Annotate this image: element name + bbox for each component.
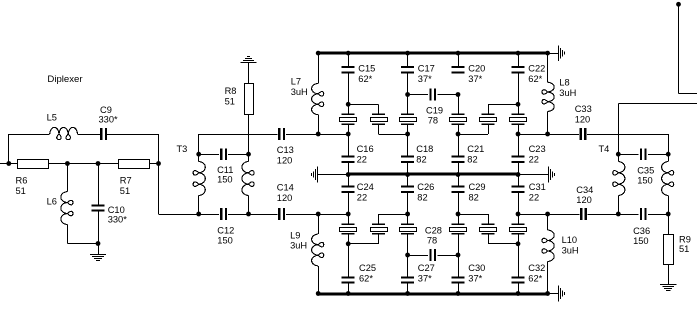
svg-text:C13: C13 — [277, 145, 294, 155]
wire middle bus right stub — [518, 174, 549, 176]
crystal Y12 — [510, 214, 527, 244]
capacitor C11 plates — [217, 148, 233, 185]
svg-text:C23: C23 — [529, 144, 546, 154]
svg-text:51: 51 — [679, 244, 689, 254]
node column4 / bottom row — [516, 212, 521, 217]
svg-text:37*: 37* — [418, 74, 432, 84]
capacitor C26 82 — [401, 175, 434, 215]
node bottom bus / L9 — [316, 291, 321, 296]
svg-text:R6: R6 — [16, 176, 28, 186]
svg-text:C25: C25 — [359, 263, 376, 273]
svg-text:C11: C11 — [217, 165, 233, 175]
svg-text:330*: 330* — [99, 115, 119, 125]
capacitor C25 62* — [342, 263, 376, 294]
wire jog Y7-Y8 bottom — [348, 243, 378, 245]
svg-text:150: 150 — [637, 175, 653, 185]
inductor L7 3uH — [291, 53, 324, 134]
winding T3 right — [242, 154, 254, 214]
title text "Diplexer" — [47, 74, 83, 85]
wire C9 to right bend — [107, 134, 159, 136]
node crystal Y7 bottom — [346, 241, 351, 246]
wire C14 to L9 node — [286, 214, 318, 216]
svg-text:L7: L7 — [291, 77, 301, 87]
svg-text:82: 82 — [417, 192, 427, 202]
crystal Y3 — [400, 95, 417, 135]
node C28 right — [456, 253, 461, 258]
node C28 left — [405, 253, 410, 258]
wire L5 to C9 — [78, 134, 101, 136]
capacitor C18 82 — [401, 134, 433, 175]
ground right of bottom bus — [559, 286, 565, 302]
top bus — [318, 52, 547, 55]
wire column4 to L10 node (bottom row) — [518, 214, 548, 216]
svg-text:R8: R8 — [225, 86, 237, 96]
node T3 left bottom — [196, 212, 201, 217]
resistor R7 51 — [119, 160, 150, 197]
svg-text:62*: 62* — [358, 74, 372, 84]
svg-text:82: 82 — [416, 155, 426, 165]
node T3 left top — [196, 152, 201, 157]
ground left of middle bus — [312, 167, 318, 183]
inductor L10 3uH — [542, 214, 579, 294]
inductor L8 3uH — [542, 53, 576, 134]
node C10 tap — [96, 161, 101, 166]
svg-text:R7: R7 — [120, 176, 132, 186]
wire R6 to L6 node — [49, 163, 119, 165]
capacitor C21 82 — [452, 134, 485, 175]
node L6 tap — [65, 161, 70, 166]
crystal Y9 — [400, 214, 417, 255]
node top-right port — [676, 2, 681, 7]
svg-text:150: 150 — [217, 235, 233, 245]
capacitor C24 22 — [342, 175, 374, 215]
svg-text:37*: 37* — [468, 273, 482, 283]
node L8 / top row — [545, 132, 550, 137]
crystal Y1 — [340, 104, 357, 134]
node column2 / bottom row — [405, 212, 410, 217]
node L9 / bottom row — [316, 212, 321, 217]
svg-text:Diplexer: Diplexer — [47, 74, 83, 85]
wire top bus to ground stub — [548, 53, 559, 55]
svg-text:78: 78 — [428, 116, 438, 126]
svg-text:51: 51 — [120, 186, 130, 196]
wire middle bus left stub — [318, 174, 349, 176]
svg-text:C34: C34 — [576, 185, 593, 195]
capacitor C13 120 — [277, 128, 294, 165]
label T4 — [599, 144, 610, 154]
node column1 / bottom row — [346, 212, 351, 217]
node T4 left bottom — [616, 212, 621, 217]
wire C13 to L7 node — [286, 134, 318, 136]
wire right bend vertical — [158, 134, 160, 214]
svg-text:120: 120 — [575, 114, 591, 124]
wire column3 to jog Y5 bottom — [458, 134, 488, 136]
ground below R9 — [660, 285, 676, 291]
node top bus / C20 — [456, 51, 461, 56]
svg-text:L5: L5 — [47, 113, 57, 123]
ground below C10 — [90, 244, 106, 261]
capacitor C29 82 — [452, 175, 486, 215]
capacitor C16 22 — [342, 134, 374, 175]
node column1 / top row — [346, 132, 351, 137]
capacitor C20 37* — [452, 53, 486, 84]
wire C28 left down — [407, 255, 409, 276]
node crystal Y6 top — [516, 102, 521, 107]
svg-text:C17: C17 — [418, 64, 435, 74]
svg-text:L6: L6 — [47, 196, 57, 206]
node input junction — [6, 161, 11, 166]
wire C15 to crystal node — [348, 73, 350, 104]
node middle bus / C18 — [405, 172, 410, 177]
node L7 / top row — [316, 132, 321, 137]
svg-text:C19: C19 — [426, 106, 443, 116]
capacitor C31 22 — [512, 175, 546, 215]
svg-text:C32: C32 — [528, 263, 545, 273]
capacitor C33 120 — [575, 104, 592, 140]
wire C33 to T4 right bend — [587, 134, 668, 154]
wire L10 node to C34 — [548, 214, 580, 216]
wire T3 bottom to C14 — [249, 214, 278, 216]
svg-text:22: 22 — [529, 192, 539, 202]
svg-text:C16: C16 — [357, 144, 374, 154]
node middle bus / C23 — [516, 172, 521, 177]
wire input from left edge — [0, 163, 18, 165]
svg-text:62*: 62* — [528, 74, 542, 84]
svg-text:C31: C31 — [529, 182, 546, 192]
capacitor C19 78 — [408, 88, 458, 125]
svg-text:C30: C30 — [468, 263, 485, 273]
svg-text:C28: C28 — [425, 226, 442, 236]
node C19 left — [405, 92, 410, 97]
node middle bus / C21 — [456, 172, 461, 177]
svg-text:C14: C14 — [277, 183, 294, 193]
wire top-right to edge — [679, 93, 697, 95]
svg-text:L9: L9 — [290, 230, 300, 240]
ground right of middle bus — [549, 167, 555, 183]
capacitor C10 330* — [92, 164, 128, 244]
node column3 / top row — [456, 132, 461, 137]
capacitor C22 62* — [512, 53, 546, 84]
node column4 / top row — [516, 132, 521, 137]
wire top-right vertical — [678, 4, 680, 93]
wire input junction up — [8, 134, 10, 164]
svg-text:62*: 62* — [528, 273, 542, 283]
capacitor C36 150 — [618, 208, 668, 246]
capacitor C34 120 — [576, 185, 593, 220]
svg-text:3uH: 3uH — [290, 241, 307, 251]
resistor R8 51 — [225, 57, 257, 155]
capacitor C30 37* — [452, 263, 486, 294]
node column2 / top row — [405, 132, 410, 137]
svg-text:R9: R9 — [679, 234, 691, 244]
wire top row to L5 — [9, 134, 50, 136]
wire jog Y11-Y12 bottom — [488, 243, 518, 245]
svg-text:78: 78 — [427, 236, 437, 246]
inductor L6 — [47, 164, 73, 244]
ground right of top bus — [559, 45, 565, 61]
wire L7 node to column1 (top row) — [318, 134, 348, 136]
svg-text:C20: C20 — [468, 64, 485, 74]
node crystal Y1 top — [346, 102, 351, 107]
node T4 right bottom — [666, 212, 671, 217]
wire L9 node to column1 (bottom row) — [318, 214, 348, 216]
svg-text:330*: 330* — [108, 215, 128, 225]
node right bend — [156, 161, 161, 166]
capacitor C15 62* — [342, 53, 376, 84]
wire T3 left top bend — [198, 134, 200, 154]
node column3 / bottom row — [456, 212, 461, 217]
svg-text:L8: L8 — [559, 78, 569, 88]
node T3 right bottom — [246, 212, 251, 217]
node T4 right top — [666, 152, 671, 157]
svg-text:82: 82 — [467, 155, 477, 165]
wire jog Y5-Y6 top — [488, 104, 518, 106]
svg-text:C35: C35 — [637, 166, 654, 176]
svg-text:82: 82 — [469, 192, 479, 202]
wire column4 crystal node down — [518, 244, 520, 277]
wire L6 bottom to C10 bottom — [67, 243, 98, 245]
svg-text:3uH: 3uH — [291, 87, 308, 97]
node top bus / C17 — [405, 51, 410, 56]
svg-text:22: 22 — [357, 192, 367, 202]
wire bottom row to T3 — [159, 214, 199, 216]
crystal Y11 — [480, 214, 497, 244]
bottom bus — [318, 293, 547, 296]
svg-text:120: 120 — [277, 193, 293, 203]
svg-text:C22: C22 — [528, 64, 545, 74]
node top bus / L8 — [545, 51, 550, 56]
wire C22 to crystal node — [518, 73, 520, 104]
svg-text:51: 51 — [225, 97, 235, 107]
node C19 right — [456, 92, 461, 97]
svg-text:37*: 37* — [468, 74, 482, 84]
wire T4 left column up / output — [618, 103, 697, 154]
capacitor C23 22 — [512, 134, 546, 175]
svg-text:C18: C18 — [416, 144, 433, 154]
node T4 left top — [616, 152, 621, 157]
svg-text:150: 150 — [217, 175, 233, 185]
inductor L9 3uH — [290, 214, 324, 294]
capacitor C27 37* — [401, 263, 435, 294]
resistor R6 51 — [16, 160, 49, 197]
capacitor C11 150 — [201, 154, 247, 156]
svg-text:62*: 62* — [359, 273, 373, 283]
node bottom bus / C27 — [405, 291, 410, 296]
svg-text:22: 22 — [357, 155, 367, 165]
svg-text:51: 51 — [16, 186, 26, 196]
node middle bus / C16 — [346, 172, 351, 177]
svg-text:22: 22 — [529, 155, 539, 165]
node C10/L6 junction — [96, 241, 101, 246]
wire jog Y2 bottom to column2 — [379, 134, 408, 136]
svg-text:C24: C24 — [357, 182, 374, 192]
svg-text:C27: C27 — [418, 263, 435, 273]
wire C34 to T4 — [588, 214, 619, 216]
wire L8 node to C33 — [548, 134, 579, 136]
wire C17 to C19 node — [407, 73, 409, 94]
svg-text:C10: C10 — [108, 205, 125, 215]
svg-text:C29: C29 — [469, 182, 486, 192]
wire jog Y8 top to column2 — [379, 214, 408, 216]
wire C28 right down — [458, 255, 460, 276]
node top bus / L7 — [316, 51, 321, 56]
capacitor C28 78 — [408, 226, 458, 262]
wire R7 to right bend — [150, 163, 159, 165]
capacitor C17 37* — [401, 53, 435, 84]
inductor L5 — [47, 113, 78, 140]
crystal Y2 — [371, 104, 388, 134]
capacitor C12 150 — [199, 208, 249, 246]
svg-text:T3: T3 — [177, 144, 188, 154]
capacitor C32 62* — [512, 263, 546, 294]
svg-text:L10: L10 — [562, 235, 578, 245]
svg-text:C21: C21 — [467, 144, 484, 154]
winding T3 left — [193, 154, 205, 214]
capacitor C9 330* — [99, 105, 119, 140]
winding T4 right — [662, 154, 674, 214]
wire column1 crystal node down — [348, 244, 350, 277]
crystal Y5 — [480, 104, 497, 134]
svg-text:C9: C9 — [100, 105, 112, 115]
crystal Y4 — [450, 95, 467, 135]
node bottom bus / C30 — [456, 291, 461, 296]
node L10 / bottom row — [545, 212, 550, 217]
svg-text:3uH: 3uH — [562, 245, 579, 255]
wire column4 to L8 node (top row) — [518, 134, 548, 136]
wire T3 top row — [199, 134, 278, 136]
node top bus / C22 — [516, 51, 521, 56]
capacitor C35 150 — [618, 148, 668, 185]
svg-text:C15: C15 — [358, 64, 375, 74]
node bottom bus / C25 — [346, 291, 351, 296]
svg-text:C33: C33 — [575, 104, 592, 114]
svg-text:T4: T4 — [599, 144, 610, 154]
svg-text:150: 150 — [633, 236, 649, 246]
svg-text:120: 120 — [576, 195, 592, 205]
resistor R9 51 — [664, 214, 691, 285]
capacitor C14 120 — [277, 183, 294, 220]
svg-text:C36: C36 — [633, 226, 650, 236]
svg-text:C26: C26 — [417, 182, 434, 192]
node crystal Y12 bottom — [516, 241, 521, 246]
crystal Y6 — [510, 104, 527, 134]
wire jog Y1-Y2 top — [348, 104, 378, 106]
crystal Y7 — [340, 214, 357, 244]
wire column3 to jog Y11 top — [458, 214, 488, 216]
node top bus / C15 — [346, 51, 351, 56]
winding T4 left — [613, 154, 625, 214]
svg-text:C12: C12 — [217, 226, 234, 236]
node bottom bus / L10 — [545, 291, 550, 296]
wire bottom bus to ground stub — [548, 293, 558, 295]
svg-text:120: 120 — [277, 155, 293, 165]
crystal Y8 — [371, 214, 388, 244]
svg-text:3uH: 3uH — [559, 88, 576, 98]
node T3 right top — [246, 152, 251, 157]
middle bus — [348, 173, 518, 176]
node bottom bus / C32 — [516, 291, 521, 296]
label T3 — [177, 144, 188, 154]
svg-text:37*: 37* — [418, 273, 432, 283]
crystal Y10 — [450, 214, 467, 255]
